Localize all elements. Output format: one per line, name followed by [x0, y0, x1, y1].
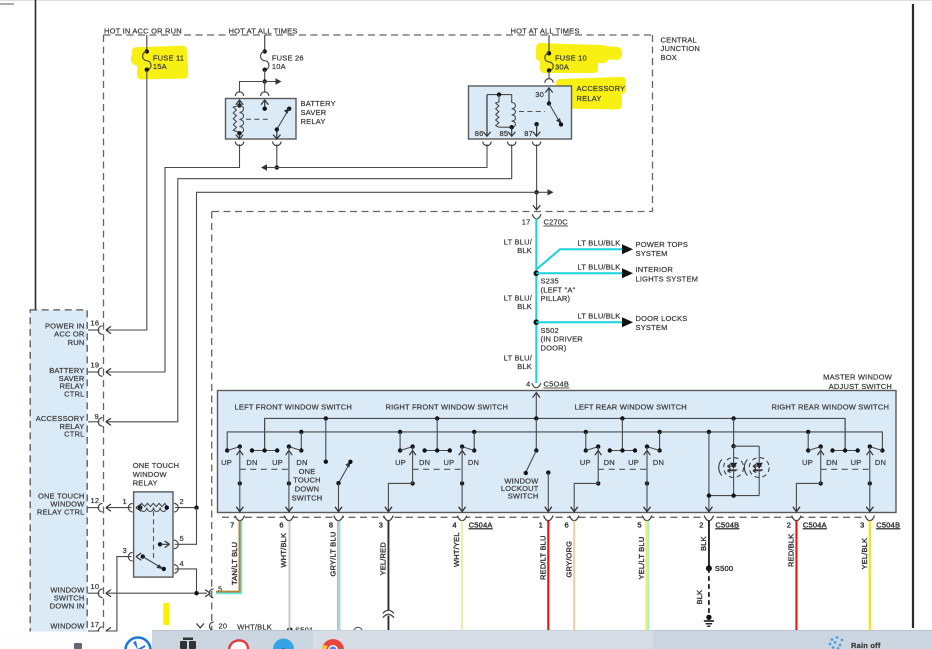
connector 20 arc: [197, 624, 204, 628]
relay coil resistor zigzag horizontal: [140, 503, 167, 507]
window lockout switch: [501, 418, 551, 511]
wire branch to power tops system: [536, 249, 622, 269]
relay pin 2 connector arc: [174, 503, 178, 512]
svg-text:ADJUST SWITCH: ADJUST SWITCH: [829, 382, 892, 391]
svg-text:RELAY: RELAY: [577, 94, 602, 103]
svg-text:C504A: C504A: [469, 520, 493, 529]
svg-text:S500: S500: [715, 564, 733, 573]
connector row dashed line: [222, 516, 870, 518]
svg-text:LT BLU/BLK: LT BLU/BLK: [578, 263, 621, 272]
svg-text:YEL/RED: YEL/RED: [379, 542, 388, 576]
central junction box dashed boundary bottom: [212, 211, 653, 213]
svg-text:LT BLU/: LT BLU/: [504, 353, 533, 362]
taskbar icon red oval app: [227, 638, 250, 649]
svg-text:10A: 10A: [272, 62, 286, 71]
svg-text:15A: 15A: [153, 62, 167, 71]
svg-text:DN: DN: [296, 458, 307, 467]
splice S501: [287, 627, 293, 633]
svg-text:SAVER: SAVER: [301, 108, 327, 117]
ground G-S500: [706, 615, 711, 620]
fuse F11 15A: [143, 35, 185, 72]
svg-text:RELAY: RELAY: [133, 479, 158, 488]
svg-text:6: 6: [279, 520, 283, 529]
bus B: [227, 432, 882, 451]
pin B entry arrow: [261, 100, 268, 109]
window indicator LEDs: [707, 418, 770, 511]
pin 4 entry arrow: [533, 393, 540, 398]
junction below fuse26: [263, 79, 267, 83]
svg-text:RUN: RUN: [68, 338, 85, 347]
relay mechanical link dashed: [153, 511, 155, 559]
svg-text:2: 2: [180, 497, 184, 506]
switch exit pin 5 wire YEL/LT BLU: [637, 507, 652, 631]
svg-text:DOWN IN: DOWN IN: [50, 601, 85, 610]
wire junction to battery saver relay pin A: [240, 82, 265, 93]
switch exit pin 6 wire WHT/BLK: [279, 507, 294, 630]
svg-text:LT BLU/: LT BLU/: [504, 237, 533, 246]
LED bottom rail: [709, 495, 759, 497]
svg-text:LT BLU/BLK: LT BLU/BLK: [578, 312, 621, 321]
relay pin 5 connector arc: [174, 540, 178, 549]
svg-text:RELAY: RELAY: [301, 117, 326, 126]
wire junction continuation arrow right: [265, 81, 278, 83]
svg-text:CENTRAL: CENTRAL: [661, 36, 697, 45]
coil top bar: [487, 94, 512, 96]
switch exit pin 3 wire YEL/RED: [379, 507, 394, 631]
svg-text:WHT/BLK: WHT/BLK: [279, 533, 288, 568]
svg-text:DN: DN: [419, 458, 430, 467]
svg-text:RIGHT REAR WINDOW SWITCH: RIGHT REAR WINDOW SWITCH: [772, 402, 890, 411]
pin D exit arrow: [273, 130, 280, 140]
switch exit pin 2 wire RED/BLK: [787, 507, 827, 631]
svg-text:ONE: ONE: [299, 467, 316, 476]
switch exit pin 1 wire RED/LT BLU: [538, 507, 553, 631]
svg-text:GRY/LT BLU: GRY/LT BLU: [329, 532, 338, 577]
left rear window switch poles: [574, 418, 664, 511]
svg-text:LIGHTS SYSTEM: LIGHTS SYSTEM: [636, 274, 699, 283]
svg-text:17: 17: [91, 620, 100, 629]
wire fuse11 to module pin16: [107, 70, 147, 330]
svg-text:1: 1: [123, 497, 127, 506]
svg-text:DN: DN: [604, 458, 615, 467]
svg-text:LT BLU/BLK: LT BLU/BLK: [578, 239, 621, 248]
coil top node: [237, 103, 241, 107]
connector ring bottom: [354, 627, 362, 635]
connector 5 arrow and arc: [205, 590, 210, 597]
svg-text:8: 8: [329, 520, 333, 529]
svg-text:SYSTEM: SYSTEM: [636, 249, 668, 258]
switch exit pin 8 wire GRY/LT BLU: [329, 507, 344, 631]
svg-text:GRY/ORG: GRY/ORG: [564, 541, 573, 578]
svg-text:UP: UP: [628, 458, 639, 467]
coil resistor zigzag: [496, 95, 499, 128]
connector arc C5O4B entry: [532, 383, 541, 388]
wire connector20 to splice S501: [215, 630, 290, 632]
switch exit pin 4 wire WHT/YEL: [452, 507, 492, 631]
svg-text:30A: 30A: [555, 63, 569, 72]
svg-text:(LEFT "A": (LEFT "A": [541, 285, 576, 294]
LED D2: [749, 458, 769, 478]
svg-text:RIGHT FRONT WINDOW SWITCH: RIGHT FRONT WINDOW SWITCH: [386, 402, 509, 411]
svg-text:DOOR LOCKS: DOOR LOCKS: [636, 314, 688, 323]
svg-text:UP: UP: [221, 458, 232, 467]
switch exit pin 4 wire WHT/YEL: [452, 507, 492, 631]
svg-text:ONE TOUCH: ONE TOUCH: [133, 461, 180, 470]
connector arc pin 87 bottom: [532, 142, 540, 146]
switch exit pin 6 wire GRY/ORG: [564, 507, 579, 631]
pin 87 exit arrow: [533, 124, 540, 136]
switch exit pin 2 wire RED/BLK: [787, 507, 827, 631]
svg-text:3: 3: [123, 546, 127, 555]
splice S502: [534, 319, 540, 325]
svg-text:MASTER WINDOW: MASTER WINDOW: [823, 373, 893, 382]
central junction box dashed boundary right: [652, 35, 654, 212]
one touch window relay U-OTR: [123, 461, 184, 577]
svg-text:WINDOW: WINDOW: [50, 622, 85, 631]
svg-text:5: 5: [180, 534, 184, 543]
svg-text:Rain off: Rain off: [851, 641, 881, 649]
relay switch pivot: [141, 554, 145, 558]
wire module pin10 to connector 5: [107, 592, 207, 594]
svg-text:RELAY CTRL: RELAY CTRL: [37, 507, 85, 516]
svg-text:S502: S502: [541, 326, 559, 335]
splice S235: [534, 271, 540, 277]
coil inductor: [512, 95, 516, 128]
svg-text:BOX: BOX: [661, 53, 677, 62]
connector arc pin B top: [261, 92, 269, 96]
svg-text:UP: UP: [443, 458, 454, 467]
pin 86 exit arrow: [483, 95, 490, 137]
wire relay pin2 to acc87 junction: [175, 507, 197, 509]
ground G-S500: [706, 615, 711, 620]
svg-text:HOT AT ALL TIMES: HOT AT ALL TIMES: [511, 27, 580, 36]
relay coil resistor zigzag: [233, 105, 239, 132]
one touch down switch: [292, 418, 353, 511]
svg-text:85: 85: [500, 129, 509, 138]
central junction box dashed boundary left / connector line C: [103, 35, 105, 631]
svg-text:6: 6: [565, 520, 569, 529]
svg-text:FUSE 10: FUSE 10: [555, 54, 587, 63]
connector arc pin 85 bottom: [508, 142, 516, 146]
svg-text:UP: UP: [395, 458, 406, 467]
coil bottom node: [237, 131, 241, 135]
wire branch to interior lights system: [536, 272, 622, 274]
mechanical link dashed: [519, 111, 545, 113]
switch exit pin 2 wire BLK: [695, 507, 740, 626]
svg-text:ACCESSORY: ACCESSORY: [577, 84, 626, 93]
taskbar icon skype: [273, 639, 294, 649]
pin C exit arrow: [236, 133, 243, 139]
switch exit pin 7 wire TAN/LT BLU: [216, 507, 245, 594]
switch exit pin 1 wire RED/LT BLU: [538, 507, 553, 631]
relay pin 1 connector arc: [128, 503, 132, 512]
wire fuse26 down to junction: [264, 70, 266, 82]
taskbar icon chrome: [322, 639, 344, 649]
highlighter mark over fuse F10: [536, 43, 623, 73]
contact B: [263, 107, 267, 111]
svg-text:BLK: BLK: [695, 590, 704, 605]
svg-text:JUNCTION: JUNCTION: [661, 44, 701, 53]
switch lever: [287, 107, 291, 111]
svg-text:S235: S235: [541, 277, 559, 286]
svg-text:BLK: BLK: [517, 246, 532, 255]
svg-text:86: 86: [475, 129, 484, 138]
wire module pin12 to relay pin1: [107, 507, 132, 509]
svg-text:4: 4: [180, 559, 184, 568]
connector arc pin 86 bottom: [483, 142, 491, 146]
master window adjust switch box: [218, 391, 897, 513]
wire LT BLU/BLK main vertical: [535, 219, 537, 384]
central junction box dashed boundary top: [104, 34, 653, 36]
highlighter mark over accessory relay label: [556, 77, 627, 110]
svg-text:LEFT REAR WINDOW SWITCH: LEFT REAR WINDOW SWITCH: [575, 402, 687, 411]
battery saver relay U-BSR: [226, 92, 336, 146]
svg-text:7: 7: [230, 520, 234, 529]
svg-text:DOWN: DOWN: [295, 485, 320, 494]
wire battery saver coil to module pin19: [107, 144, 240, 372]
svg-text:C5O4B: C5O4B: [544, 380, 570, 389]
switch exit pin 2 wire BLK: [695, 507, 740, 626]
svg-text:FUSE 26: FUSE 26: [272, 54, 304, 63]
svg-text:19: 19: [91, 360, 100, 369]
taskbar weather icon: [829, 636, 844, 649]
svg-text:30: 30: [535, 90, 544, 99]
svg-text:C504B: C504B: [876, 520, 900, 529]
relay pin 3 connector arc: [128, 552, 132, 561]
svg-text:UP: UP: [272, 458, 283, 467]
svg-text:SYSTEM: SYSTEM: [636, 323, 668, 332]
svg-text:YEL/BLK: YEL/BLK: [860, 538, 869, 570]
svg-text:4: 4: [452, 520, 456, 529]
svg-text:RED/LT BLU: RED/LT BLU: [538, 535, 547, 580]
right page border line: [912, 4, 914, 628]
svg-text:WHT/YEL: WHT/YEL: [452, 532, 461, 567]
taskbar icon small left: [74, 643, 82, 649]
svg-text:CTRL: CTRL: [64, 430, 84, 439]
accessory relay U-ACC: [469, 84, 626, 146]
highlighter tick bottom-left: [163, 603, 169, 625]
switch pivot pin30: [547, 101, 551, 105]
right rear window switch poles: [796, 418, 886, 511]
taskbar icon clock app: [126, 638, 151, 649]
svg-text:CTRL: CTRL: [64, 389, 84, 398]
top-left corner tick: [0, 3, 14, 5]
svg-text:BLK: BLK: [517, 362, 532, 371]
switch pivot: [275, 127, 279, 131]
pin 85 exit arrow: [508, 127, 515, 136]
wire fuse10 to accessory relay pin30: [548, 71, 550, 80]
svg-text:DOOR): DOOR): [541, 343, 567, 352]
svg-text:C504B: C504B: [715, 520, 739, 529]
svg-text:10: 10: [91, 582, 100, 591]
switch exit pin 6 wire WHT/BLK: [279, 507, 294, 630]
relay coil node left: [138, 505, 142, 509]
wire accessory coil 85 to module pin9: [107, 144, 512, 422]
switch exit pin 7 wire TAN/LT BLU: [216, 507, 245, 594]
svg-text:YEL/LT BLU: YEL/LT BLU: [637, 537, 646, 580]
wire junction to battery saver relay pin B: [264, 82, 266, 93]
ground feed wire from bus B to pin 2: [708, 432, 710, 511]
svg-text:20: 20: [219, 622, 228, 631]
fuse F26 10A: [261, 35, 304, 72]
right front window switch poles: [388, 418, 479, 511]
connector arc pin D bottom: [273, 142, 281, 146]
junction 87: [534, 190, 538, 194]
svg-text:TOUCH: TOUCH: [293, 476, 321, 485]
taskbar icon grid app: [180, 638, 196, 649]
wire 87 to connector C270C: [536, 192, 538, 210]
svg-text:FUSE 11: FUSE 11: [153, 54, 184, 63]
wire accessory 87 down: [536, 144, 538, 192]
svg-text:2: 2: [699, 520, 703, 529]
svg-text:DN: DN: [826, 458, 837, 467]
LED D1: [724, 458, 744, 478]
svg-text:3: 3: [379, 520, 383, 529]
svg-text:HOT AT ALL TIMES: HOT AT ALL TIMES: [229, 27, 298, 36]
relay coil inductor: [240, 105, 244, 133]
switch exit pin 3 wire YEL/BLK: [860, 507, 900, 631]
switch exit pin 8 wire GRY/LT BLU: [329, 507, 344, 631]
svg-text:4: 4: [526, 380, 530, 389]
switch exit pin 6 wire GRY/ORG: [564, 507, 579, 631]
svg-text:HOT IN ACC OR RUN: HOT IN ACC OR RUN: [104, 27, 182, 36]
svg-text:POWER TOPS: POWER TOPS: [636, 240, 689, 249]
svg-text:WINDOW: WINDOW: [133, 470, 168, 479]
wire battery saver output to stub arrow: [276, 144, 278, 167]
page top hairline: [0, 0, 932, 2]
svg-text:UP: UP: [580, 458, 591, 467]
svg-text:SWITCH: SWITCH: [508, 492, 539, 501]
svg-text:BLK: BLK: [517, 302, 532, 311]
svg-text:DN: DN: [246, 458, 257, 467]
wire junction down to relay pin5: [175, 508, 197, 545]
svg-text:PILLAR): PILLAR): [541, 294, 571, 303]
switch exit pin 5 wire YEL/LT BLU: [637, 507, 652, 631]
svg-text:1: 1: [539, 520, 543, 529]
contact 87: [534, 122, 538, 126]
svg-text:DN: DN: [875, 458, 886, 467]
switch exit pin 3 wire YEL/RED: [379, 507, 394, 631]
wire 87 branch to one touch relay: [197, 192, 537, 507]
svg-text:(IN DRIVER: (IN DRIVER: [541, 335, 584, 344]
svg-text:3: 3: [860, 520, 864, 529]
relay coil inductor horizontal: [140, 508, 167, 512]
svg-text:16: 16: [91, 318, 100, 327]
svg-text:BLK: BLK: [699, 536, 708, 551]
svg-text:RED/BLK: RED/BLK: [787, 534, 796, 568]
pin 30 entry arrow: [545, 88, 552, 104]
left front window switch poles: [221, 418, 308, 511]
switch lever: [549, 104, 559, 121]
inner dashed boundary vertical: [211, 212, 213, 632]
relay switch lever: [143, 557, 160, 567]
highlighter mark over fuse F11: [131, 46, 188, 80]
svg-text:INTERIOR: INTERIOR: [636, 265, 674, 274]
left page border line: [35, 0, 37, 631]
svg-text:UP: UP: [802, 458, 813, 467]
svg-text:SWITCH: SWITCH: [292, 493, 323, 502]
wire battery saver output to accessory relay pin 86: [277, 144, 487, 167]
svg-text:17: 17: [522, 218, 531, 227]
svg-text:BATTERY: BATTERY: [301, 99, 336, 108]
driver window module dashed box: [30, 310, 87, 634]
mechanical link dashed: [246, 118, 271, 120]
svg-text:DN: DN: [468, 458, 479, 467]
connector arc pin A top: [235, 92, 243, 96]
relay coil node right: [165, 505, 169, 509]
svg-text:LT BLU/: LT BLU/: [504, 293, 533, 302]
svg-text:2: 2: [787, 520, 791, 529]
svg-text:12: 12: [91, 496, 100, 505]
wire relay pin4 to pin10 junction: [175, 569, 197, 593]
connector row dashed line: [222, 516, 870, 518]
svg-text:5: 5: [637, 520, 641, 529]
svg-text:87: 87: [524, 129, 533, 138]
wire relay pin3 to module pin17: [107, 557, 132, 631]
bus A: [265, 418, 846, 450]
connector arc C270C: [532, 214, 541, 219]
fuse F10 30A: [545, 35, 587, 73]
relay pin 4 connector arc: [174, 565, 178, 574]
wire 87 continuation arrow: [537, 191, 550, 193]
wire branch to door locks system: [536, 321, 622, 323]
switch exit pin 3 wire YEL/BLK: [860, 507, 900, 631]
connector arc pin 30: [545, 79, 553, 83]
coil bottom bar: [499, 126, 513, 128]
pin A entry arrow: [236, 100, 243, 105]
taskbar: [0, 632, 932, 649]
svg-text:TAN/LT BLU: TAN/LT BLU: [230, 542, 239, 585]
svg-text:DN: DN: [653, 458, 664, 467]
connector arc pin C bottom: [235, 142, 243, 146]
svg-text:UP: UP: [851, 458, 862, 467]
svg-text:C270C: C270C: [544, 218, 569, 227]
svg-text:LEFT FRONT WINDOW SWITCH: LEFT FRONT WINDOW SWITCH: [235, 402, 352, 411]
svg-text:C504A: C504A: [803, 520, 827, 529]
